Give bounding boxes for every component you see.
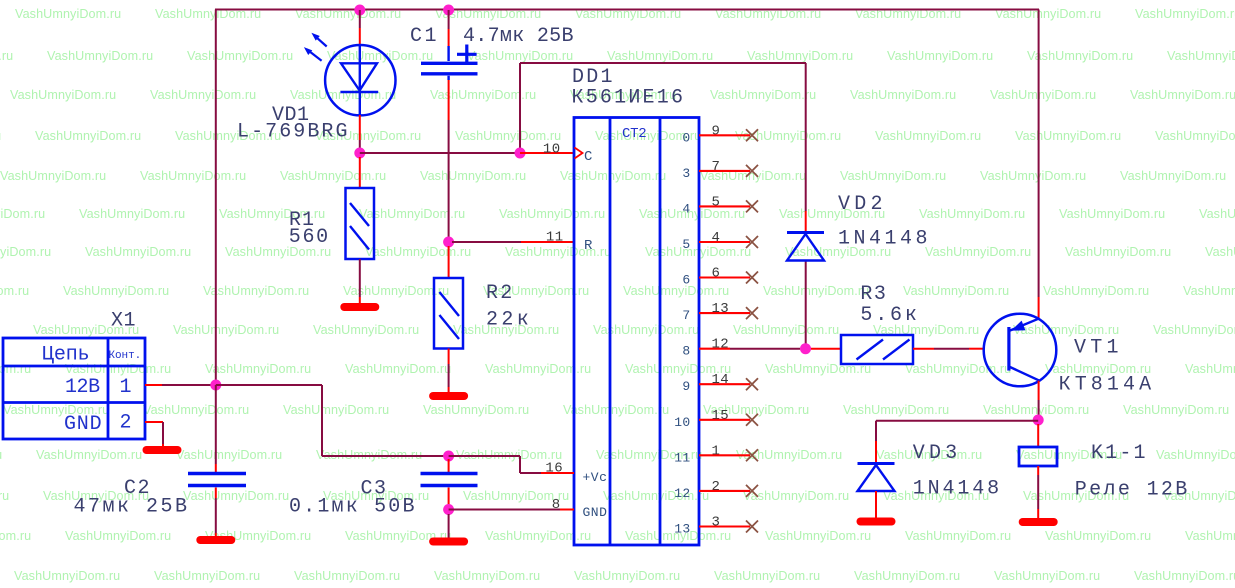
wire LED bottom lead [359, 115, 361, 153]
label 12В [65, 376, 101, 399]
pin 9 output Q0 [682, 123, 758, 145]
node C3 bottom junction [443, 504, 454, 515]
node top rail junction at LED [354, 5, 365, 16]
pin 7 output Q3 [682, 159, 758, 181]
svg-text:47мк 25В: 47мк 25В [74, 496, 188, 519]
label C2 [124, 477, 150, 500]
svg-text:C1: C1 [410, 25, 437, 48]
svg-text:0.1мк 50В: 0.1мк 50В [289, 496, 415, 519]
wire C3 top lead [448, 459, 450, 472]
label pin 8 [552, 497, 561, 513]
svg-text:6: 6 [712, 266, 721, 282]
svg-text:560: 560 [289, 226, 329, 249]
diode VD3 [858, 464, 895, 492]
node 12V junction [210, 380, 221, 391]
svg-text:5: 5 [712, 194, 721, 210]
svg-text:3: 3 [682, 166, 690, 181]
wire C3 bottom lead [448, 488, 450, 506]
pin 5 output Q4 [682, 194, 758, 216]
label L-769BRG [237, 121, 348, 144]
svg-text:R2: R2 [486, 282, 513, 305]
label КТ814А [1059, 374, 1152, 397]
svg-text:0: 0 [682, 130, 690, 145]
node clock junction [515, 148, 526, 159]
wire VD3 to ground [875, 491, 877, 519]
wire C3 to ground [448, 514, 450, 540]
wire R3 to VT1 base [913, 348, 984, 350]
label CT2 [622, 126, 647, 142]
capacitor C1 [421, 45, 478, 74]
svg-text:5.6к: 5.6к [860, 304, 917, 327]
ground below relay [1023, 518, 1054, 526]
op-amp U1 : IC DD1 К561ИЕ16 counter box [574, 118, 699, 546]
svg-text:16: 16 [545, 461, 563, 477]
svg-text:14: 14 [712, 372, 730, 388]
label 0.1мк 50В [289, 496, 415, 519]
svg-text:VD3: VD3 [913, 442, 958, 465]
label 47мк 25В [74, 496, 188, 519]
wire C1 top lead [448, 10, 450, 61]
svg-text:R3: R3 [860, 283, 886, 306]
wire VD2 drop [805, 63, 807, 233]
node LED/R1 junction [354, 148, 365, 159]
ground below X1 pin2 [147, 446, 178, 454]
svg-text:5: 5 [682, 237, 690, 252]
wire C2 bottom lead [215, 488, 217, 539]
svg-text:К561ИЕ16: К561ИЕ16 [572, 87, 684, 110]
svg-text:GND: GND [64, 413, 102, 436]
ground below C2 [200, 536, 231, 544]
svg-text:4.7мк 25В: 4.7мк 25В [463, 25, 574, 48]
label C1 [410, 25, 437, 48]
svg-text:9: 9 [682, 379, 690, 394]
svg-text:8: 8 [552, 497, 561, 513]
wire GND feed pin 8 [449, 509, 574, 511]
pin 12 output Q8 [682, 337, 730, 359]
wire right border to VT1 emitter [1038, 10, 1040, 320]
wire X1 pin2 to ground [145, 422, 163, 448]
label pin 1 [120, 376, 132, 399]
svg-text:GND: GND [583, 505, 608, 520]
wire pin 11 net [452, 241, 574, 243]
svg-text:10: 10 [543, 142, 561, 158]
label VD1 [272, 104, 310, 127]
svg-text:13: 13 [674, 522, 690, 537]
diode VD2 [787, 233, 824, 261]
pin 4 output Q5 [682, 230, 758, 252]
label K1-1 [1091, 442, 1146, 465]
node VD2/R3 junction [800, 343, 811, 354]
wire +Vc feed pin 16 [449, 456, 574, 473]
label 4.7мк 25В [463, 25, 574, 48]
svg-text:CT2: CT2 [622, 126, 647, 142]
resistor R1 [346, 188, 375, 259]
wire left rail to C2 [215, 385, 217, 472]
svg-text:11: 11 [674, 450, 690, 465]
svg-text:VT1: VT1 [1074, 337, 1119, 360]
pin +Vc label [583, 470, 608, 485]
svg-text:7: 7 [682, 308, 690, 323]
label 1N4148 (VD2) [838, 228, 928, 251]
label Реле 12В [1075, 479, 1188, 502]
label VD3 [913, 442, 958, 465]
wire pin 10 stub [520, 152, 574, 154]
svg-text:Реле 12В: Реле 12В [1075, 479, 1188, 502]
svg-text:12В: 12В [65, 376, 101, 399]
ground below VD3 [861, 518, 892, 526]
svg-text:6: 6 [682, 273, 690, 288]
ground below R1 [344, 303, 375, 311]
label 560 [289, 226, 329, 249]
label GND [64, 413, 102, 436]
svg-text:7: 7 [712, 159, 721, 175]
transistor VT1 [984, 314, 1057, 387]
svg-text:11: 11 [546, 230, 564, 246]
svg-text:Цепь: Цепь [42, 344, 90, 367]
node top rail junction at C1 [443, 5, 454, 16]
svg-text:3: 3 [712, 515, 721, 531]
wire 12V node to C3 [216, 385, 449, 456]
label DD1 [572, 66, 613, 89]
wire collector to VD3 [876, 421, 1038, 464]
label R3 [860, 283, 886, 306]
connector X1 table [3, 338, 145, 439]
wire LED top lead [359, 10, 361, 46]
pin 6 output Q6 [682, 266, 758, 288]
pin GND label [583, 505, 608, 520]
wire clock node riser [520, 63, 806, 153]
svg-text:13: 13 [712, 301, 730, 317]
svg-text:4: 4 [712, 230, 721, 246]
ground below R2 [433, 392, 464, 400]
wire R2 top lead [448, 246, 450, 278]
pin R input label [584, 238, 593, 254]
label pin 2 [120, 412, 132, 435]
pin C clock input [575, 148, 593, 166]
svg-text:8: 8 [682, 344, 690, 359]
label К561ИЕ16 [572, 87, 684, 110]
label Конт. [109, 350, 142, 362]
svg-text:1N4148: 1N4148 [913, 478, 1000, 501]
wire C1 bottom lead [447, 76, 449, 238]
label Цепь [42, 344, 90, 367]
wire R2 bottom lead [448, 349, 450, 395]
capacitor C2 [188, 474, 246, 486]
node collector junction [1033, 415, 1044, 426]
svg-text:2: 2 [712, 479, 721, 495]
svg-text:1: 1 [712, 443, 721, 459]
resistor R2 [434, 278, 463, 349]
label R1 [289, 209, 315, 232]
node C3 top junction [443, 451, 454, 462]
svg-text:22к: 22к [486, 309, 529, 332]
wire VD2 bottom lead [805, 261, 807, 346]
ground below C3 [433, 538, 464, 546]
label pin 10 [543, 142, 561, 158]
svg-text:4: 4 [682, 201, 690, 216]
svg-text:15: 15 [712, 408, 730, 424]
wire pin 12 net to R3/VD2 [730, 348, 841, 350]
wire relay bottom lead [1037, 466, 1039, 519]
svg-text:Конт.: Конт. [109, 350, 142, 362]
svg-text:2: 2 [120, 412, 132, 435]
wire X1 pin1 to 12V node [145, 384, 216, 386]
label C3 [361, 478, 387, 501]
resistor R3 [841, 335, 913, 364]
svg-text:VD2: VD2 [838, 193, 883, 216]
svg-text:X1: X1 [111, 310, 136, 333]
pin 1 output Q11 [674, 443, 758, 465]
LED VD1 [304, 33, 396, 116]
svg-text:1: 1 [120, 376, 132, 399]
svg-text:12: 12 [712, 337, 730, 353]
label X1 [111, 310, 136, 333]
wire left border (12V feed) [215, 10, 217, 386]
wire relay top lead [1037, 424, 1039, 447]
pin 14 output Q9 [682, 372, 758, 394]
label 5.6к [860, 304, 917, 327]
svg-text:12: 12 [674, 486, 690, 501]
wire R1 bottom lead [359, 259, 361, 304]
pin 2 output Q12 [674, 479, 758, 501]
wire VT1 collector down [1038, 381, 1040, 416]
wire LED junction to clock node [360, 152, 520, 154]
wire R1 top lead [359, 157, 361, 188]
label 22к [486, 309, 529, 332]
svg-text:9: 9 [712, 123, 721, 139]
relay coil K1-1 [1019, 447, 1057, 466]
label pin 16 [545, 461, 563, 477]
svg-text:L-769BRG: L-769BRG [237, 121, 348, 144]
capacitor C3 [421, 474, 478, 486]
svg-text:R: R [584, 238, 593, 254]
svg-text:+Vc: +Vc [583, 470, 608, 485]
label VD2 [838, 193, 883, 216]
label pin 11 [546, 230, 564, 246]
label R2 [486, 282, 513, 305]
label 1N4148 (VD3) [913, 478, 1000, 501]
svg-text:1N4148: 1N4148 [838, 228, 928, 251]
svg-text:K1-1: K1-1 [1091, 442, 1146, 465]
svg-text:КТ814А: КТ814А [1059, 374, 1152, 397]
node C1/R2/pin11 junction [443, 237, 454, 248]
pin 13 output Q7 [682, 301, 758, 323]
pin 15 output Q10 [674, 408, 758, 430]
pin 3 output Q13 [674, 515, 758, 537]
svg-text:C: C [584, 149, 593, 165]
wire +12V top rail [215, 9, 1039, 11]
label VT1 [1074, 337, 1119, 360]
svg-text:10: 10 [674, 415, 690, 430]
